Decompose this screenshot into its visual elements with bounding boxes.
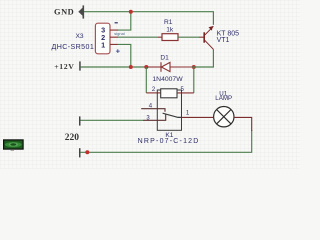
wire: X3 pin2 signal to R1 (118, 36, 159, 38)
coil lead left (146, 92, 160, 94)
coil lead right (177, 92, 194, 94)
wire: X3 pin1 down to +12V rail (118, 44, 131, 67)
contact arm (163, 113, 182, 117)
svg-text:ДНС-SR501: ДНС-SR501 (51, 43, 94, 51)
junction dot at GND rail (129, 10, 133, 14)
sheet background (0, 0, 300, 169)
wire: +12V rail (81, 66, 148, 68)
svg-text:LAMP: LAMP (215, 95, 232, 102)
svg-text:VT1: VT1 (217, 37, 230, 44)
wire: diode to collector corner (192, 49, 213, 67)
junction dot coil right (192, 65, 196, 69)
GND terminal (78, 5, 84, 18)
transistor VT1 (204, 26, 213, 49)
wire: X3 pin3 to GND rail (118, 12, 131, 30)
pin stubs (110, 30, 118, 44)
resistor R1 (158, 34, 204, 41)
minus polarity label (115, 22, 118, 23)
lamp lead left from relay pin1 (182, 116, 214, 118)
svg-text:X3: X3 (76, 33, 84, 40)
wire: rail down to relay coil pin5 (193, 67, 195, 93)
pin 4 lead (NC) (141, 109, 165, 112)
watermark thumbnail bottom-left (4, 140, 24, 151)
transistor emitter arrow (209, 26, 214, 31)
svg-text:signal: signal (114, 31, 125, 36)
junction dot coil left (144, 65, 148, 69)
svg-text:+12V: +12V (54, 62, 74, 71)
svg-text:1: 1 (101, 40, 105, 49)
junction dot X3 pin1 (129, 65, 133, 69)
wire: 220 bottom return wire (80, 130, 252, 152)
220 terminal lower (79, 148, 81, 157)
relay coil (161, 89, 177, 98)
wire: GND top rail to transistor emitter (84, 12, 213, 25)
junction dot bottom (85, 150, 89, 154)
svg-text:1N4007W: 1N4007W (152, 76, 183, 83)
svg-text:220: 220 (65, 133, 80, 143)
svg-text:D1: D1 (160, 55, 169, 62)
pin 3 lead (common) (143, 114, 166, 121)
+12V terminal (79, 61, 81, 70)
diode D1 (147, 62, 193, 72)
lamp U1 (214, 107, 234, 127)
svg-text:R1: R1 (164, 19, 173, 26)
svg-text:+: + (116, 47, 121, 56)
X3 connector box (95, 23, 118, 54)
svg-text:1k: 1k (166, 26, 174, 33)
wire: rail down to relay coil pin2 (145, 67, 147, 93)
svg-text:NRP-07-C-12D: NRP-07-C-12D (138, 138, 200, 145)
220 terminal upper (79, 116, 81, 125)
wire: 220 terminal to relay pin3 (80, 119, 143, 121)
relay body (157, 90, 181, 130)
relay K1 (141, 87, 194, 131)
lamp lead right (234, 117, 252, 131)
svg-text:GND: GND (54, 8, 74, 17)
